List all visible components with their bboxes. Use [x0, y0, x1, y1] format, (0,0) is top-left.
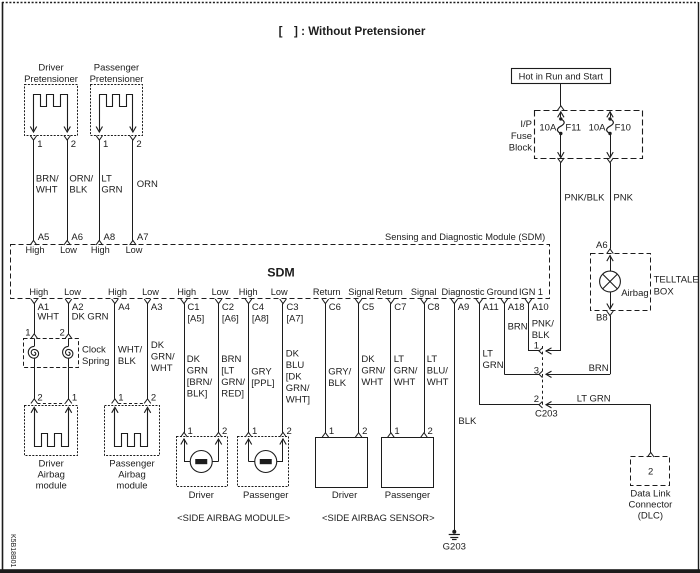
svg-text:GRN/: GRN/ [361, 366, 385, 377]
svg-text:PNK: PNK [613, 193, 633, 204]
wire BLK A9 to G203 [455, 304, 478, 531]
wire hot box to fuse block [560, 83, 562, 106]
passenger side airbag sensor pin 1 [388, 426, 400, 437]
wire GRY/BLK C6 to driver side sensor [326, 304, 352, 433]
svg-text:[DK: [DK [286, 372, 303, 383]
svg-text:[A7]: [A7] [286, 314, 303, 325]
page border top [2, 2, 698, 4]
svg-text:Passenger: Passenger [94, 63, 139, 74]
svg-text:BRN: BRN [508, 322, 528, 333]
svg-text:LT: LT [394, 354, 405, 365]
svg-text:1: 1 [25, 328, 30, 339]
wire clock spring pin1 to driver airbag module [69, 368, 78, 404]
passenger side airbag module pin 2 [280, 426, 292, 437]
wire clock spring pin2 to driver airbag module [35, 368, 43, 404]
svg-text:C7: C7 [394, 302, 406, 313]
fuse block top terminal [558, 106, 565, 111]
wire DK GRN/WHT C5 to driver side sensor [359, 304, 386, 433]
wire ORN passenger2 to A7 [133, 140, 159, 240]
wire GRY C4 to passenger side airbag module [249, 304, 275, 433]
svg-text:Fuse: Fuse [511, 131, 532, 142]
driver side airbag module pin 2 [215, 426, 227, 437]
svg-text:Sensing and Diagnostic Module: Sensing and Diagnostic Module (SDM) [385, 232, 545, 242]
fuse block bottom terminal F11 [558, 158, 565, 163]
svg-text:GRN/: GRN/ [151, 352, 175, 363]
svg-text:C203: C203 [535, 409, 558, 420]
svg-text:Signal: Signal [411, 287, 437, 297]
wire BRN A18 to C203 pin3 [504, 304, 539, 375]
driver side airbag module U1 [177, 437, 228, 487]
svg-text:GRN/: GRN/ [286, 383, 310, 394]
clock spring [24, 338, 79, 367]
svg-text:DK GRN: DK GRN [72, 312, 109, 323]
svg-text:WHT/: WHT/ [118, 345, 143, 356]
svg-text:BLK: BLK [328, 378, 347, 389]
passenger side airbag module U2 [238, 437, 289, 487]
svg-text:LT: LT [101, 174, 112, 185]
wire PNK/BLK A10 to C203 pin1 [528, 304, 554, 351]
svg-text:Return: Return [313, 287, 341, 297]
wire DK BLU C3 to passenger side airbag module [283, 304, 311, 433]
svg-text:B8: B8 [596, 313, 608, 324]
svg-text:module: module [36, 481, 67, 492]
page border bottom [0, 569, 700, 573]
svg-text:GRN: GRN [101, 185, 122, 196]
svg-text:2: 2 [151, 393, 156, 404]
fuse block label [509, 119, 532, 153]
svg-text:F10: F10 [615, 123, 631, 134]
SDM top pin functions [26, 245, 143, 255]
svg-text:1: 1 [329, 426, 334, 437]
svg-text:A4: A4 [118, 302, 130, 313]
svg-text:2: 2 [37, 393, 42, 404]
wire DK GRN C1 to driver side airbag module [185, 304, 213, 433]
svg-text:A3: A3 [151, 302, 163, 313]
wire DK GRN/WHT A3 [148, 304, 176, 399]
svg-text:A6: A6 [71, 232, 83, 243]
driver airbag module [25, 406, 78, 456]
svg-text:BOX: BOX [654, 287, 675, 298]
passenger airbag module label [109, 459, 154, 492]
svg-text:F11: F11 [565, 123, 581, 134]
fuse block bottom terminal F10 [607, 158, 614, 163]
svg-text:Connector: Connector [628, 500, 672, 511]
SDM terminal C1 [181, 299, 205, 325]
svg-text:WHT]: WHT] [286, 395, 310, 406]
svg-text:[A6]: [A6] [222, 314, 239, 325]
svg-text:2: 2 [287, 426, 292, 437]
passenger airbag module connector [112, 399, 151, 404]
SDM terminal A8 [96, 232, 115, 245]
svg-text:A6: A6 [596, 240, 608, 251]
svg-text:SDM: SDM [267, 266, 295, 280]
svg-text:2: 2 [136, 139, 141, 150]
svg-text:LT: LT [427, 354, 438, 365]
SDM terminal C4 [245, 299, 269, 325]
svg-text:LT: LT [483, 349, 494, 360]
svg-text:A10: A10 [532, 302, 549, 313]
svg-text:Block: Block [509, 142, 532, 153]
svg-text:WHT: WHT [36, 185, 58, 196]
svg-text:Airbag: Airbag [118, 470, 145, 481]
svg-text:C8: C8 [427, 302, 439, 313]
SDM terminal C5 [355, 299, 374, 313]
svg-text:C4: C4 [252, 302, 264, 313]
connector C203 line [542, 346, 544, 405]
svg-text:BLU/: BLU/ [427, 366, 448, 377]
C203 pin 1 [534, 340, 552, 354]
svg-text:Driver: Driver [39, 459, 64, 470]
svg-text:2: 2 [362, 426, 367, 437]
wire BRN C2 to driver side airbag module [219, 304, 246, 433]
svg-text:BLU: BLU [286, 360, 305, 371]
airbag telltale lamp [600, 256, 621, 309]
svg-text:3: 3 [534, 365, 539, 376]
SDM terminal A10 [525, 299, 549, 313]
svg-text:Low: Low [60, 245, 77, 255]
svg-text:BLK: BLK [458, 416, 477, 427]
wire WHT/BLK A4 [115, 304, 143, 399]
svg-text:Passenger: Passenger [385, 490, 430, 501]
svg-text:WHT: WHT [361, 377, 383, 388]
svg-text:1: 1 [72, 393, 77, 404]
svg-text:[A5]: [A5] [187, 314, 204, 325]
SDM terminal C3 [280, 299, 304, 325]
svg-text:1: 1 [394, 426, 399, 437]
svg-text:Driver: Driver [189, 490, 214, 501]
clock spring pin 1 top [25, 328, 37, 339]
svg-text:2: 2 [60, 328, 65, 339]
passenger pretensioner pin 2 [130, 136, 142, 151]
ground G203 [443, 530, 466, 553]
svg-text:IGN 1: IGN 1 [519, 287, 543, 297]
svg-text:WHT: WHT [394, 377, 416, 388]
svg-text:Data Link: Data Link [630, 489, 670, 500]
svg-text:[LT: [LT [221, 366, 234, 377]
svg-text:BLK: BLK [69, 185, 88, 196]
svg-text:High: High [177, 287, 196, 297]
svg-text:Ground: Ground [487, 287, 518, 297]
passenger pretensioner [91, 85, 143, 136]
DLC label [628, 489, 672, 522]
passenger pretensioner pin 1 [96, 136, 108, 151]
svg-text:A5: A5 [38, 232, 50, 243]
SDM module box [11, 245, 550, 299]
clock spring label [82, 345, 109, 368]
SDM terminal C8 [421, 299, 440, 313]
svg-text:1: 1 [118, 393, 123, 404]
svg-text:RED]: RED] [221, 389, 244, 400]
svg-text:High: High [91, 245, 110, 255]
wire ORN/BLK pretensioner2 to A6 [68, 140, 94, 240]
svg-text:[ ] : Without Pretensioner: [ ] : Without Pretensioner [279, 25, 426, 38]
passenger airbag module [105, 406, 160, 456]
svg-text:G203: G203 [443, 542, 466, 553]
svg-text:Low: Low [126, 245, 143, 255]
svg-text:GRY/: GRY/ [328, 367, 351, 378]
svg-text:C1: C1 [187, 302, 199, 313]
telltale box [591, 254, 651, 311]
driver side airbag sensor pin 1 [322, 426, 334, 437]
svg-text:WHT: WHT [151, 363, 173, 374]
wire LT GRN A11 to C203 pin2 [479, 304, 539, 405]
svg-text:[A8]: [A8] [252, 314, 269, 325]
svg-text:Airbag: Airbag [621, 288, 648, 299]
svg-text:BLK]: BLK] [187, 389, 208, 400]
telltale terminal B8 [596, 311, 613, 324]
driver side airbag sensor [316, 438, 368, 488]
passenger side airbag module pin 1 [245, 426, 257, 437]
svg-text:Passenger: Passenger [109, 459, 154, 470]
telltale terminal A6 [596, 240, 613, 253]
svg-text:Low: Low [212, 287, 229, 297]
svg-text:GRN/: GRN/ [221, 377, 245, 388]
telltale box label [654, 275, 699, 298]
svg-text:High: High [29, 287, 48, 297]
svg-text:A7: A7 [137, 232, 149, 243]
C203 pin 3 [534, 365, 552, 377]
driver pretensioner pin 1 [30, 136, 42, 151]
svg-text:C2: C2 [222, 302, 234, 313]
passenger side airbag sensor pin 2 [421, 426, 433, 437]
svg-text:Pretensioner: Pretensioner [90, 74, 144, 85]
wire LT GRN/WHT C7 to passenger side sensor [391, 304, 418, 433]
svg-text:K5B18B01: K5B18B01 [9, 534, 16, 568]
svg-text:LT GRN: LT GRN [577, 393, 611, 404]
svg-text:TELLTALE: TELLTALE [654, 275, 699, 286]
SDM terminal A6 [64, 232, 83, 245]
SDM terminal A11 [476, 299, 499, 313]
svg-text:I/P: I/P [520, 119, 532, 130]
SDM terminal A3 [144, 299, 162, 313]
svg-text:Airbag: Airbag [37, 470, 64, 481]
svg-text:ORN: ORN [137, 179, 158, 190]
wire BRN B8 to C203 pin3 [546, 316, 611, 375]
page border right [698, 2, 700, 573]
svg-text:Low: Low [64, 287, 81, 297]
svg-text:<SIDE AIRBAG SENSOR>: <SIDE AIRBAG SENSOR> [322, 512, 435, 523]
svg-text:WHT: WHT [427, 377, 449, 388]
svg-text:[PPL]: [PPL] [251, 378, 274, 389]
svg-text:High: High [108, 287, 127, 297]
svg-text:1: 1 [252, 426, 257, 437]
svg-text:Pretensioner: Pretensioner [24, 74, 78, 85]
svg-text:BLK: BLK [118, 356, 137, 367]
driver pretensioner label [24, 63, 78, 86]
clock spring pin 2 top [60, 328, 72, 339]
svg-text:2: 2 [428, 426, 433, 437]
svg-text:BLK: BLK [532, 330, 551, 341]
SDM terminal C2 [215, 299, 239, 325]
passenger side airbag sensor [382, 438, 434, 488]
data link connector [631, 457, 670, 486]
svg-text:A9: A9 [458, 302, 470, 313]
svg-text:GRY: GRY [251, 367, 272, 378]
wire DK GRN A2 to clock spring [69, 304, 109, 334]
svg-text:(DLC): (DLC) [638, 511, 663, 522]
SDM terminal C7 [388, 299, 407, 313]
svg-text:C3: C3 [286, 302, 298, 313]
wire LT GRN passenger1 to A8 [100, 140, 123, 240]
SDM terminal A7 [130, 232, 149, 245]
driver airbag module label [36, 459, 67, 492]
wire BRN/WHT pretensioner1 to A5 [34, 140, 59, 240]
svg-text:PNK/BLK: PNK/BLK [564, 193, 605, 204]
svg-text:2: 2 [71, 139, 76, 150]
svg-text:1: 1 [103, 139, 108, 150]
svg-text:2: 2 [222, 426, 227, 437]
svg-text:Return: Return [375, 287, 403, 297]
driver side airbag sensor pin 2 [355, 426, 367, 437]
SDM terminal A5 [30, 232, 49, 245]
svg-text:Hot in Run and Start: Hot in Run and Start [519, 71, 604, 81]
wire PNK/BLK F11 to C203 pin1 [546, 163, 605, 351]
page border left [2, 2, 4, 573]
svg-text:2: 2 [534, 394, 539, 405]
svg-text:module: module [116, 481, 147, 492]
svg-text:Clock: Clock [82, 345, 106, 356]
svg-text:1: 1 [37, 139, 42, 150]
svg-text:DK: DK [361, 354, 375, 365]
svg-text:Low: Low [142, 287, 159, 297]
driver airbag module connector [31, 399, 72, 404]
svg-text:Signal: Signal [348, 287, 374, 297]
svg-text:Passenger: Passenger [243, 490, 288, 501]
SDM bottom pin functions [29, 287, 543, 297]
C203 pin 2 [534, 394, 552, 408]
fuse F11 10A [539, 112, 581, 158]
I/P fuse block [535, 111, 643, 159]
driver pretensioner D21 [25, 85, 78, 136]
svg-text:ORN/: ORN/ [69, 174, 93, 185]
SDM terminal A9 [451, 299, 469, 313]
wire WHT A1 to clock spring [35, 304, 60, 334]
svg-text:A11: A11 [483, 302, 499, 313]
svg-text:10A: 10A [589, 123, 607, 134]
svg-text:BRN/: BRN/ [36, 174, 59, 185]
hot in run and start box [512, 69, 611, 84]
passenger module pin labels [118, 393, 156, 404]
SDM terminal A1 [31, 299, 49, 313]
svg-text:Driver: Driver [38, 63, 63, 74]
svg-text:1: 1 [534, 340, 539, 351]
svg-text:Spring: Spring [82, 356, 109, 367]
svg-text:C5: C5 [362, 302, 374, 313]
svg-text:Driver: Driver [332, 490, 357, 501]
svg-text:GRN/: GRN/ [394, 366, 418, 377]
svg-text:Low: Low [271, 287, 288, 297]
svg-text:GRN: GRN [483, 360, 504, 371]
svg-text:High: High [26, 245, 45, 255]
passenger pretensioner label [90, 63, 144, 86]
svg-text:High: High [239, 287, 258, 297]
svg-text:Diagnostic: Diagnostic [442, 287, 485, 297]
svg-text:DK: DK [187, 354, 201, 365]
SDM terminal A4 [112, 299, 130, 313]
svg-text:[BRN/: [BRN/ [187, 377, 213, 388]
SDM terminal C6 [322, 299, 341, 313]
svg-text:2: 2 [648, 467, 653, 478]
wire LT BLU/WHT C8 to passenger side sensor [425, 304, 449, 433]
svg-text:DK: DK [286, 349, 300, 360]
driver side airbag module pin 1 [181, 426, 193, 437]
SDM terminal A2 [65, 299, 83, 313]
svg-text:BRN: BRN [589, 363, 609, 374]
fuse F10 10A [589, 112, 631, 158]
wire PNK F10 to telltale A6 [611, 163, 634, 249]
svg-text:10A: 10A [539, 123, 557, 134]
wire LT GRN C203 pin2 to DLC [546, 393, 651, 452]
svg-text:PNK/: PNK/ [532, 319, 555, 330]
svg-text:DK: DK [151, 340, 165, 351]
svg-text:A18: A18 [508, 302, 525, 313]
svg-text:C6: C6 [329, 302, 341, 313]
DLC terminal 2 [647, 452, 654, 457]
svg-text:A8: A8 [104, 232, 116, 243]
driver pretensioner pin 2 [64, 136, 76, 151]
svg-text:WHT: WHT [37, 312, 59, 323]
svg-text:1: 1 [188, 426, 193, 437]
svg-text:GRN: GRN [187, 366, 208, 377]
svg-text:BRN: BRN [221, 354, 241, 365]
svg-text:<SIDE AIRBAG MODULE>: <SIDE AIRBAG MODULE> [177, 512, 291, 523]
SDM terminal A18 [501, 299, 525, 313]
